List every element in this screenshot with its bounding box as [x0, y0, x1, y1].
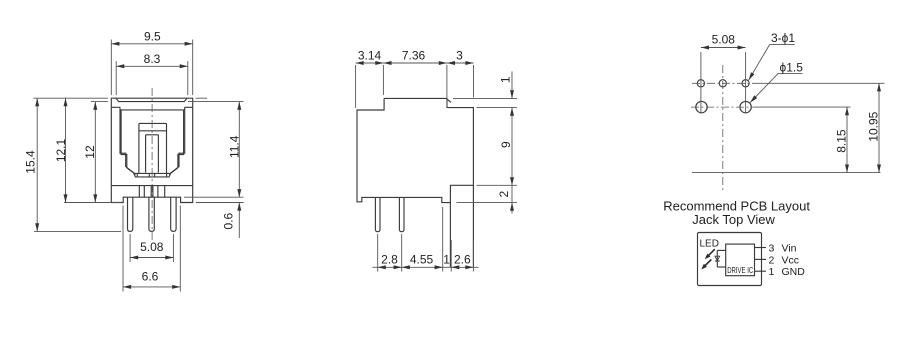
svg-text:3: 3	[769, 243, 775, 255]
side pin 1	[375, 197, 380, 231]
jack body outline front	[111, 98, 192, 202]
shutter pin rect	[146, 135, 159, 173]
label 3-phi1	[749, 31, 796, 80]
hole small 2	[719, 80, 726, 87]
svg-text:7.36: 7.36	[402, 49, 426, 63]
dim 8.15	[754, 107, 851, 173]
jack body outline side	[357, 98, 473, 267]
aperture inner left	[121, 110, 135, 174]
face frame line	[111, 106, 192, 108]
shutter inner line	[139, 130, 167, 132]
bottom dims 2.8 4.55 1 2.6	[373, 207, 479, 272]
centerline row small	[692, 82, 753, 84]
aperture outer right	[170, 107, 185, 173]
pin 1	[755, 270, 767, 272]
svg-text:Vcc: Vcc	[782, 254, 800, 266]
svg-text:ϕ1.5: ϕ1.5	[780, 61, 804, 75]
pin 2	[755, 258, 767, 260]
svg-text:2: 2	[769, 254, 775, 266]
led diode symbol	[715, 250, 720, 267]
svg-text:1: 1	[769, 266, 775, 278]
dim 1 right	[453, 72, 517, 99]
dim 2 right	[457, 185, 518, 213]
dim 5.08 front	[130, 234, 173, 262]
side pin 2	[399, 197, 404, 231]
led wires	[717, 249, 725, 251]
body bottom line	[111, 185, 192, 187]
pin labels	[769, 243, 806, 279]
svg-text:15.4: 15.4	[23, 150, 37, 174]
centerline row large	[691, 106, 754, 108]
svg-text:Vin: Vin	[782, 243, 797, 255]
dim 6.6	[123, 206, 180, 292]
svg-text:Jack Top View: Jack Top View	[692, 212, 775, 227]
svg-text:9: 9	[499, 141, 513, 148]
svg-text:6.6: 6.6	[142, 270, 159, 284]
svg-text:GND: GND	[782, 266, 806, 278]
dim 11.4	[184, 102, 244, 203]
svg-text:12: 12	[83, 145, 97, 159]
svg-text:LED: LED	[700, 239, 719, 250]
dim 9.5	[111, 30, 192, 96]
svg-text:3: 3	[456, 49, 463, 63]
aperture outer left	[120, 107, 135, 173]
dim 8.3	[116, 52, 188, 95]
flange tabs	[139, 186, 164, 198]
svg-text:1: 1	[498, 76, 512, 83]
svg-text:2.6: 2.6	[454, 252, 471, 266]
svg-text:12.1: 12.1	[54, 138, 68, 162]
aperture inner right	[169, 110, 183, 174]
centerline front	[151, 88, 153, 240]
pcb edge line	[692, 172, 881, 174]
svg-text:4.55: 4.55	[410, 252, 434, 266]
dim 12.1	[54, 98, 68, 202]
SIDE VIEW	[356, 49, 517, 272]
dim 9 right	[477, 108, 518, 186]
label phi1.5	[750, 61, 803, 103]
dim 15.4	[23, 98, 121, 231]
svg-text:DRIVE IC: DRIVE IC	[727, 266, 753, 275]
pin left	[128, 197, 133, 231]
dim 0.6	[221, 203, 239, 239]
hole large right	[740, 101, 751, 112]
centerline vertical pcb	[722, 65, 724, 190]
pin 3	[755, 247, 767, 249]
dim 10.95	[753, 83, 885, 172]
hole small 3	[742, 80, 749, 87]
pin right	[171, 197, 176, 231]
hole large left	[696, 101, 707, 112]
bottom band	[134, 173, 171, 177]
svg-text:5.08: 5.08	[140, 240, 164, 254]
corner chamfer tick	[447, 99, 451, 103]
svg-text:2: 2	[497, 191, 511, 198]
svg-text:5.08: 5.08	[712, 33, 736, 47]
hole small 1	[697, 80, 704, 87]
dim 5.08 pcb	[701, 33, 746, 114]
top lip	[116, 99, 187, 102]
shutter rect	[139, 123, 167, 173]
drive ic box	[726, 244, 755, 276]
FRONT VIEW	[23, 30, 243, 292]
svg-text:3.14: 3.14	[358, 49, 382, 63]
PCB LAYOUT	[663, 31, 884, 227]
dim 3.14 / 7.36 / 3	[356, 49, 474, 109]
dim 12	[64, 98, 207, 202]
aperture inner top line	[120, 109, 185, 111]
led emission arrows	[702, 249, 715, 268]
svg-text:8.3: 8.3	[144, 52, 161, 66]
SCHEMATIC	[698, 233, 806, 286]
svg-text:0.6: 0.6	[221, 212, 235, 229]
svg-text:2.8: 2.8	[381, 252, 398, 266]
svg-text:3-ϕ1: 3-ϕ1	[771, 31, 795, 45]
svg-text:10.95: 10.95	[866, 111, 880, 141]
svg-text:8.15: 8.15	[834, 129, 848, 153]
outer box	[698, 233, 762, 286]
svg-text:9.5: 9.5	[144, 30, 161, 44]
pin center	[149, 197, 154, 231]
svg-text:1: 1	[443, 252, 450, 266]
svg-text:11.4: 11.4	[227, 135, 241, 158]
